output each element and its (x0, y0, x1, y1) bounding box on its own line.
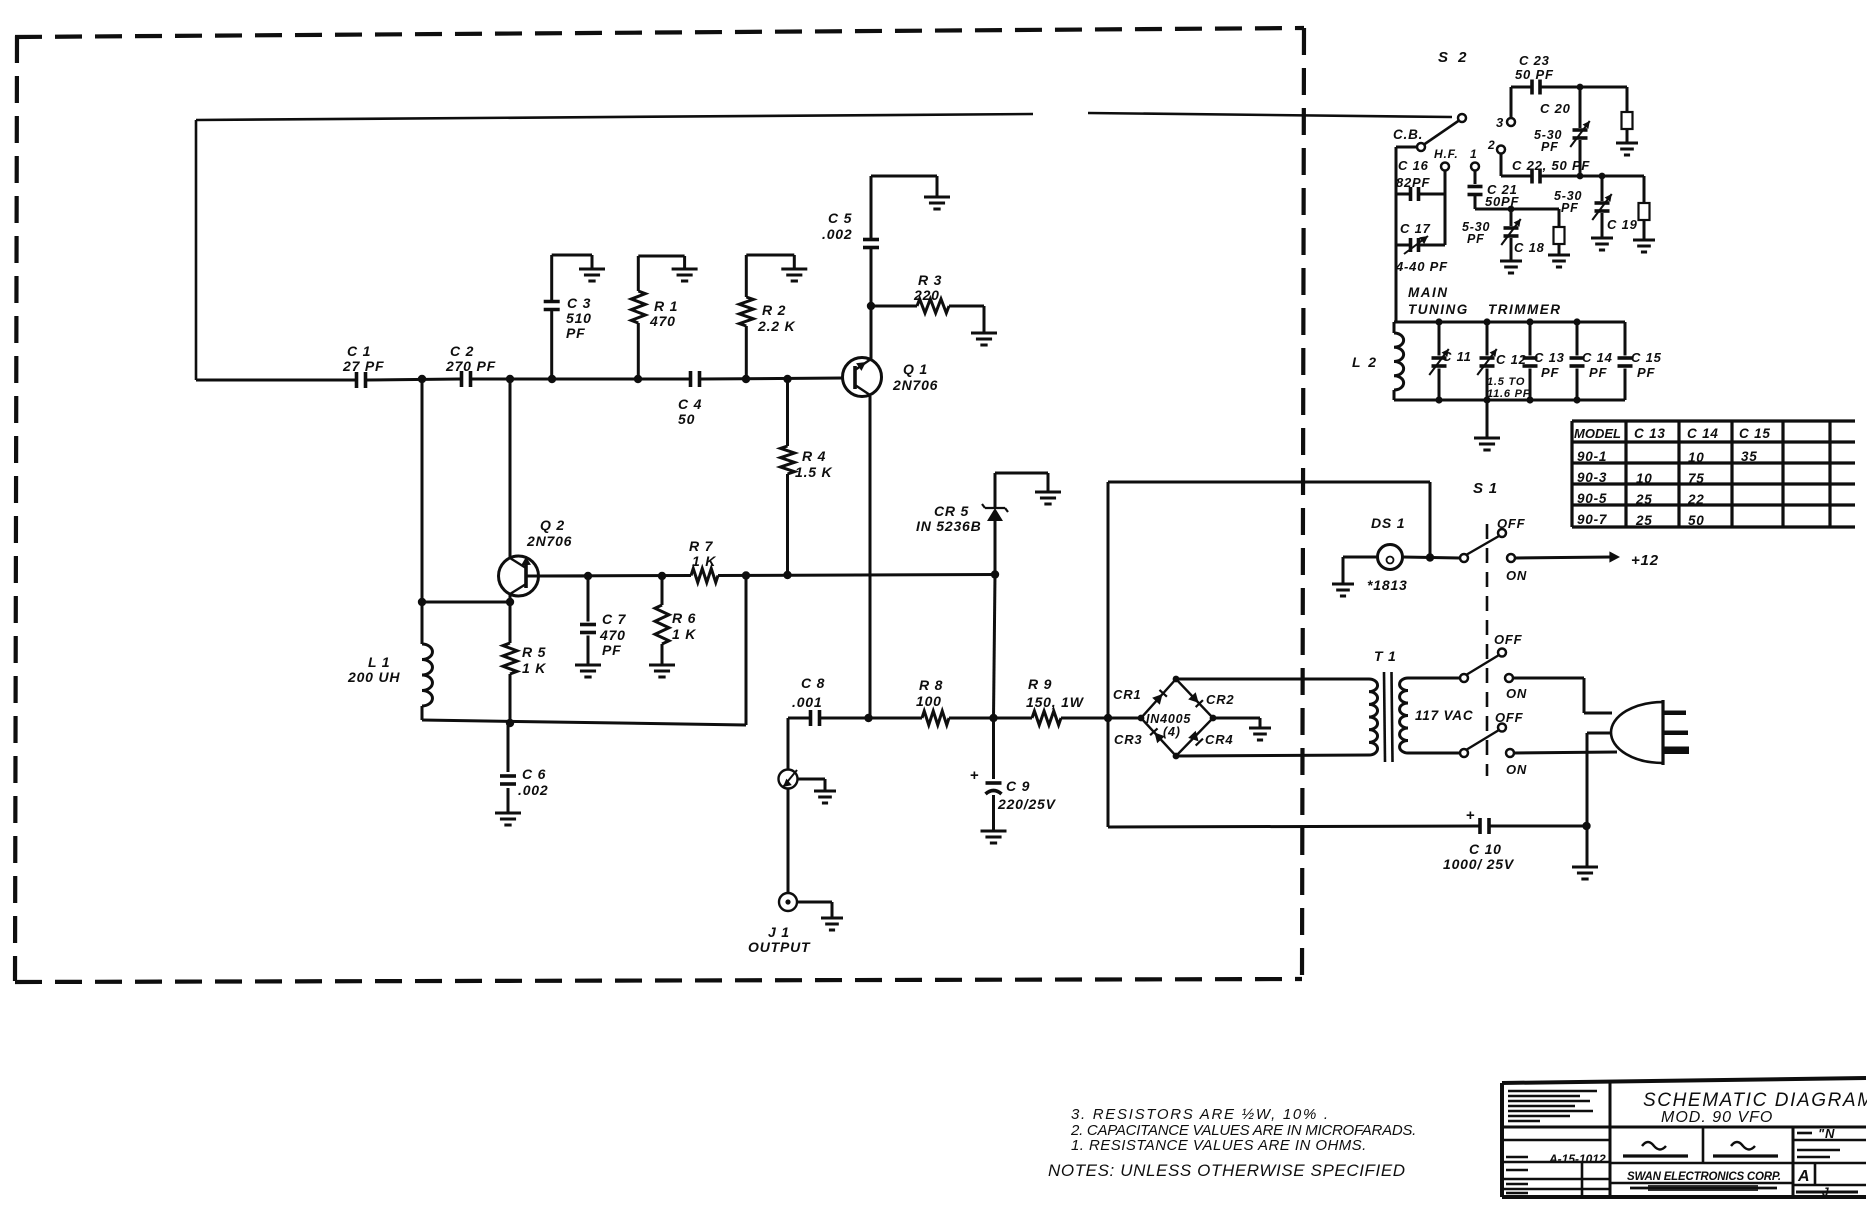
svg-text:C 5: C 5 (828, 210, 852, 226)
svg-text:220: 220 (913, 287, 940, 303)
svg-text:NOTES: UNLESS OTHERWISE SPECIF: NOTES: UNLESS OTHERWISE SPECIFIED (1048, 1161, 1406, 1180)
svg-text:CR3: CR3 (1114, 732, 1142, 747)
svg-text:C 14: C 14 (1687, 426, 1719, 441)
svg-text:SWAN ELECTRONICS CORP.: SWAN ELECTRONICS CORP. (1627, 1171, 1781, 1183)
svg-text:PF: PF (1541, 140, 1559, 154)
svg-text:C 20: C 20 (1540, 101, 1571, 116)
svg-text:TRIMMER: TRIMMER (1488, 302, 1562, 317)
svg-text:C 17: C 17 (1400, 221, 1431, 236)
svg-text:11.6 PF: 11.6 PF (1487, 388, 1530, 400)
svg-text:C 15: C 15 (1631, 350, 1662, 365)
svg-text:OFF: OFF (1497, 516, 1526, 531)
svg-text:150, 1W: 150, 1W (1026, 694, 1085, 710)
svg-text:50 PF: 50 PF (1515, 67, 1554, 82)
svg-text:C 2: C 2 (450, 343, 474, 359)
svg-text:R 4: R 4 (802, 448, 826, 464)
svg-text:10: 10 (1636, 471, 1653, 486)
svg-text:C 10: C 10 (1469, 841, 1502, 857)
svg-text:Q 2: Q 2 (540, 517, 565, 533)
svg-text:R 1: R 1 (654, 298, 678, 314)
svg-text:PF: PF (1561, 201, 1579, 215)
svg-text:1: 1 (1470, 147, 1477, 161)
svg-text:.002: .002 (822, 226, 852, 242)
svg-text:S 1: S 1 (1473, 480, 1498, 497)
svg-text:PF: PF (1589, 365, 1607, 380)
svg-text:R 2: R 2 (762, 302, 786, 318)
svg-text:25: 25 (1635, 492, 1653, 507)
svg-text:82PF: 82PF (1396, 175, 1431, 190)
svg-text:CR 5: CR 5 (934, 503, 969, 519)
svg-text:1. RESISTANCE VALUES ARE IN OH: 1. RESISTANCE VALUES ARE IN OHMS. (1071, 1137, 1367, 1154)
svg-text:1.5 K: 1.5 K (795, 464, 833, 480)
svg-text:"N: "N (1818, 1126, 1835, 1141)
svg-text:C 1: C 1 (347, 343, 371, 359)
svg-text:50: 50 (1688, 513, 1705, 528)
svg-text:SCHEMATIC DIAGRAM: SCHEMATIC DIAGRAM (1643, 1090, 1867, 1111)
svg-text:R 9: R 9 (1028, 676, 1052, 692)
svg-text:75: 75 (1688, 471, 1705, 486)
svg-text:OUTPUT: OUTPUT (748, 939, 811, 955)
svg-text:90-1: 90-1 (1577, 449, 1607, 464)
svg-text:C 7: C 7 (602, 611, 627, 627)
svg-text:DS 1: DS 1 (1371, 515, 1405, 531)
svg-text:1 K: 1 K (672, 626, 696, 642)
svg-text:C 12: C 12 (1496, 352, 1527, 367)
svg-text:MODEL: MODEL (1574, 426, 1621, 441)
svg-text:A: A (1797, 1168, 1810, 1185)
svg-text:R 3: R 3 (918, 272, 942, 288)
svg-text:CR1: CR1 (1113, 687, 1141, 702)
svg-text:IN 5236B: IN 5236B (916, 518, 982, 534)
svg-text:1000/ 25V: 1000/ 25V (1443, 856, 1515, 872)
svg-text:90-7: 90-7 (1577, 512, 1608, 527)
svg-text:L 2: L 2 (1352, 354, 1378, 370)
svg-text:1 K: 1 K (692, 553, 716, 569)
svg-text:10: 10 (1688, 450, 1705, 465)
svg-text:117 VAC: 117 VAC (1415, 708, 1473, 723)
svg-text:C.B.: C.B. (1393, 127, 1423, 142)
svg-text:PF: PF (1541, 365, 1559, 380)
svg-text:R 6: R 6 (672, 610, 696, 626)
svg-text:1 K: 1 K (522, 660, 546, 676)
svg-text:100: 100 (916, 693, 942, 709)
svg-text:470: 470 (599, 627, 626, 643)
svg-text:2N706: 2N706 (892, 377, 938, 393)
svg-text:R 7: R 7 (689, 538, 714, 554)
svg-text:J: J (1822, 1185, 1829, 1199)
svg-text:(4): (4) (1163, 725, 1181, 739)
svg-text:510: 510 (566, 310, 592, 326)
svg-text:J 1: J 1 (768, 924, 790, 940)
svg-text:C 3: C 3 (567, 295, 591, 311)
svg-text:C 14: C 14 (1582, 350, 1613, 365)
svg-text:*1813: *1813 (1367, 577, 1408, 593)
svg-text:CR4: CR4 (1205, 732, 1233, 747)
svg-text:3. RESISTORS ARE ½W, 10% .: 3. RESISTORS ARE ½W, 10% . (1071, 1106, 1330, 1123)
svg-text:L 1: L 1 (368, 654, 390, 670)
svg-text:22: 22 (1687, 492, 1705, 507)
svg-text:C 13: C 13 (1534, 350, 1565, 365)
svg-text:+: + (970, 767, 980, 784)
svg-text:S 2: S 2 (1438, 49, 1470, 66)
svg-text:C 23: C 23 (1519, 53, 1550, 68)
svg-text:27 PF: 27 PF (342, 358, 384, 374)
svg-text:470: 470 (649, 313, 676, 329)
svg-text:90-3: 90-3 (1577, 470, 1607, 485)
svg-text:H.F.: H.F. (1434, 147, 1459, 161)
svg-text:A-15-1012: A-15-1012 (1548, 1152, 1606, 1166)
svg-text:OFF: OFF (1495, 710, 1524, 725)
svg-text:R 8: R 8 (919, 677, 943, 693)
svg-text:25: 25 (1635, 513, 1653, 528)
svg-text:OFF: OFF (1494, 632, 1523, 647)
svg-text:35: 35 (1741, 449, 1758, 464)
svg-text:TUNING: TUNING (1408, 302, 1469, 317)
svg-text:1.5 TO: 1.5 TO (1487, 376, 1525, 388)
svg-text:4-40 PF: 4-40 PF (1395, 259, 1448, 274)
svg-text:PF: PF (602, 642, 622, 658)
svg-text:270 PF: 270 PF (445, 358, 496, 374)
svg-text:IN4005: IN4005 (1146, 712, 1191, 726)
svg-text:C 15: C 15 (1739, 426, 1771, 441)
svg-text:50: 50 (678, 411, 695, 427)
svg-text:ON: ON (1506, 762, 1527, 777)
svg-text:200 UH: 200 UH (347, 669, 400, 685)
svg-text:C 9: C 9 (1006, 778, 1030, 794)
svg-text:PF: PF (566, 325, 586, 341)
svg-text:220/25V: 220/25V (997, 796, 1057, 812)
svg-text:PF: PF (1467, 232, 1485, 246)
svg-text:3: 3 (1496, 115, 1504, 130)
svg-text:C 19: C 19 (1607, 217, 1638, 232)
svg-text:.001: .001 (792, 694, 822, 710)
svg-text:50PF: 50PF (1485, 194, 1520, 209)
svg-text:MAIN: MAIN (1408, 285, 1449, 300)
svg-text:CR2: CR2 (1206, 692, 1234, 707)
svg-text:C 4: C 4 (678, 396, 702, 412)
svg-text:C 6: C 6 (522, 766, 546, 782)
svg-text:.002: .002 (518, 782, 548, 798)
svg-text:C 11: C 11 (1442, 349, 1472, 364)
svg-text:C 8: C 8 (801, 675, 825, 691)
svg-text:90-5: 90-5 (1577, 491, 1607, 506)
svg-text:MOD. 90 VFO: MOD. 90 VFO (1661, 1109, 1773, 1126)
svg-text:C 13: C 13 (1634, 426, 1666, 441)
svg-text:ON: ON (1506, 686, 1527, 701)
svg-text:+: + (1466, 807, 1476, 824)
svg-text:2: 2 (1487, 138, 1495, 152)
svg-text:C 18: C 18 (1514, 240, 1545, 255)
svg-text:ON: ON (1506, 568, 1527, 583)
svg-text:2N706: 2N706 (526, 533, 572, 549)
svg-text:2.2 K: 2.2 K (757, 318, 796, 334)
svg-text:+12: +12 (1631, 552, 1659, 569)
svg-text:R 5: R 5 (522, 644, 546, 660)
svg-text:PF: PF (1637, 365, 1655, 380)
svg-text:C 16: C 16 (1398, 158, 1429, 173)
svg-text:Q 1: Q 1 (903, 361, 928, 377)
svg-text:T 1: T 1 (1374, 648, 1397, 664)
